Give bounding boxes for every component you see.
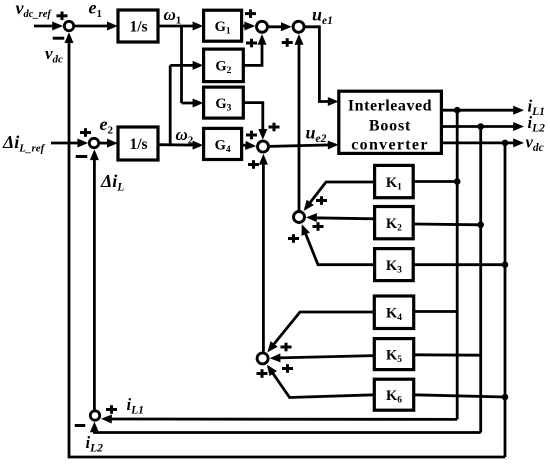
sign + at S1 [57,12,68,21]
sign + for K4 input [281,343,292,352]
wire K4 output to K-sum2 [267,312,374,352]
label i_L1 output [528,97,545,119]
block K2 [375,207,414,239]
wire K5 output to K-sum2 [270,353,375,362]
sign + for K3 input [288,234,299,243]
wire S4 to integrator 2 [100,139,118,148]
label e_2 [100,114,114,137]
block G2 [204,49,244,82]
label omega_1 [164,5,182,27]
wire K2 output to K-sum1 [306,213,375,222]
wire omega_1 branch down to G3 [180,26,183,103]
svg-text:Boost: Boost [369,118,411,135]
label v_dc output [526,133,544,155]
label v_dc feedback [45,44,63,66]
wire omega_2 to G4 [158,141,203,150]
block integrator 1/s (voltage loop) [118,10,158,42]
svg-text:Interleaved: Interleaved [348,98,432,115]
sign + at S4 [80,128,91,137]
node dot at K1 tap [454,178,461,185]
wire i_L2 feedback vertical [479,127,482,433]
sign + for K1 input [316,196,327,205]
wire K6 output to K-sum2 [267,365,374,398]
sign - at S1 [53,37,65,40]
block K4 [374,296,413,329]
summing junction S5 (u_e2) [258,141,269,152]
node dot at K2 tap [477,222,484,229]
wire K5 input from i_L2 line [414,353,481,356]
label i_L1 return [127,395,144,417]
wire into G2 [170,61,203,70]
sign + below-left S5 [248,160,259,169]
block K5 [374,339,413,370]
wire K4 input from i_L1 line [414,310,458,313]
label omega_2 [176,125,194,147]
node dot i_L1 tap [454,107,461,114]
summing junction i-sum (i_L1+i_L2) [90,411,99,420]
sign + below-left S3 [282,38,293,47]
wire G3 down into S5 [243,103,267,140]
svg-text:1/s: 1/s [129,19,147,36]
block G1 [204,10,242,41]
wire into G3 [182,99,204,108]
summing junction S2 (G1+G2) [257,21,268,32]
wire S2 to summing junction S3 [269,22,292,31]
label e_1 [89,0,103,20]
wire u_e1 to converter input [305,27,338,106]
summing junction S4 (i_ref - i_L) [89,138,98,147]
block K3 [375,249,414,281]
wire K6 input from v_dc line [414,395,505,397]
wire omega_1 to G1 [158,22,203,31]
wire omega_2 branch up to G2 [169,65,172,145]
block G3 [204,87,244,118]
sign + left-above S5 [246,131,257,140]
wire output v_dc [441,138,524,147]
label i_L2 output [528,113,546,135]
label v_dc_ref [16,0,53,20]
block integrator 1/s (current loop) [118,127,158,160]
wire K-sum2 up into S5 [259,154,268,352]
wire v_dc return [65,32,506,457]
label u_e2 [306,123,327,146]
wire output i_L2 [441,122,524,131]
block G4 [204,128,242,159]
summing junction S1 (v_dc_ref - v_dc) [64,21,73,30]
sign + above S2 [245,9,256,18]
label i_L2 return [86,433,104,455]
wire G2 up into S2 [243,34,266,65]
wire K-sum1 up into S3 [295,34,304,210]
wire K1 input from i_L1 line [413,180,457,183]
wire output i_L1 [441,106,524,115]
wire delta_i_L up to S4 [90,149,99,409]
wire i_L1 return [101,415,457,424]
wire G4 to summing junction S5 [242,141,257,150]
wire u_e2 to converter input [270,141,339,150]
node dot at K3 tap [502,261,509,268]
block K1 [375,165,414,197]
wire K2 input from i_L2 line [413,223,481,227]
sign + for K5 input [282,364,293,373]
svg-text:1/s: 1/s [129,136,147,153]
sign + at i-sum [106,405,117,414]
label u_e1 [312,5,333,28]
wire K1 output to K-sum1 [304,182,375,211]
node dot v_dc tap [502,140,509,147]
wire K3 output to K-sum1 [302,224,375,265]
sign + right of G3 arrow [269,123,280,132]
wire S1 to integrator 1 [75,22,118,31]
summing junction S3 (u_e1) [293,21,304,32]
sign + below-left S2 [246,39,257,48]
wire i_L2 return [90,422,481,433]
wire v_dc feedback vertical [504,143,507,457]
svg-text:converter: converter [351,137,428,154]
block Interleaved Boost converter [339,91,442,153]
wire delta_i_L_ref input [51,139,88,148]
wire i_L1 feedback vertical [456,110,459,419]
summing junction K-sum1 [294,212,305,223]
sign + for K2 input [313,222,324,231]
summing junction K-sum2 [257,353,268,364]
wire v_dc_ref input [34,22,63,31]
node dot at K6 tap [502,394,509,401]
sign - at S4 [76,155,88,158]
node dot i_L2 tap [477,123,484,130]
sign - at i-sum [75,424,86,427]
label delta_i_L_ref [2,132,46,155]
label delta_i_L [100,171,124,194]
wire K3 input from v_dc line [413,263,505,266]
wire G1 to summing junction S2 [242,22,256,31]
sign + below K-sum2 [257,369,268,378]
block K6 [374,379,413,410]
